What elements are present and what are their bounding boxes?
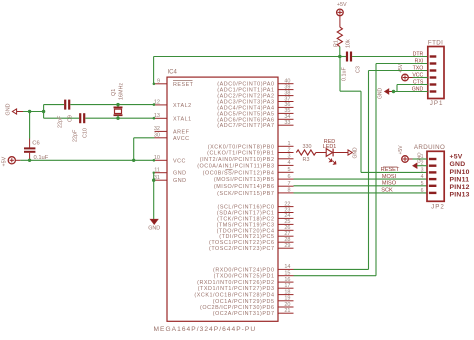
- capacitor C10: [79, 113, 81, 123]
- svg-text:19: 19: [284, 296, 290, 302]
- svg-text:PIN13: PIN13: [450, 192, 470, 199]
- svg-text:2: 2: [287, 147, 290, 153]
- JP2 pin 1: [429, 158, 437, 160]
- pin 38 PA2 stub: [278, 95, 294, 97]
- supply +5V (FTDI VCC): [402, 74, 409, 81]
- wire TXO vertical: [368, 71, 370, 270]
- pin 24 PC2 stub: [278, 217, 294, 219]
- pin 32 AREF stub: [155, 130, 168, 132]
- svg-text:C9: C9: [68, 115, 74, 122]
- node xtal2 pin dot: [153, 103, 156, 106]
- svg-text:VCC: VCC: [173, 158, 186, 164]
- JP1 pin VCC: [430, 76, 437, 78]
- wire +5V to R1: [339, 16, 341, 27]
- pin 35 PA5 stub: [278, 112, 294, 114]
- svg-text:DTR: DTR: [413, 52, 424, 58]
- ground GND (JP2): [413, 163, 417, 168]
- svg-text:(TOSC2/PCINT23)PC7: (TOSC2/PCINT23)PC7: [209, 246, 275, 252]
- svg-text:20: 20: [284, 302, 290, 308]
- svg-text:6: 6: [287, 174, 290, 180]
- svg-text:22pF: 22pF: [58, 115, 64, 128]
- svg-text:JP2: JP2: [431, 204, 445, 211]
- wire MOSI: [294, 178, 428, 180]
- wire R1 bottom: [339, 47, 341, 57]
- wire C3 to DTR: [352, 56, 428, 58]
- svg-text:+5V: +5V: [398, 63, 404, 73]
- pin 15 PD1 stub: [278, 275, 294, 277]
- JP2 pin 6: [429, 192, 437, 194]
- wire gnd pins vertical: [153, 173, 155, 219]
- wire VCC rail: [15, 159, 20, 161]
- pin 23 PC1 stub: [278, 212, 294, 214]
- connector JP2 ARDUINO box: [427, 151, 444, 201]
- svg-text:JP1: JP1: [430, 100, 444, 107]
- pin 5 PB4 stub: [278, 171, 294, 173]
- wire gnd horizontal: [23, 111, 44, 113]
- pin 34 PA6 stub: [278, 118, 294, 120]
- capacitor C6: [24, 147, 35, 149]
- svg-text:IC4: IC4: [168, 70, 178, 76]
- node junction AVCC drop: [132, 159, 135, 162]
- pin 39 PA1 stub: [278, 89, 294, 91]
- wire to C10 left: [44, 117, 79, 119]
- node junction gnd pin 11: [153, 172, 155, 174]
- ground GND (FTDI): [385, 89, 389, 94]
- wire CTS branch horizontal: [397, 84, 428, 86]
- ground GND (top-left): [12, 109, 16, 114]
- wire SCK: [294, 192, 428, 194]
- svg-text:+5V: +5V: [2, 156, 8, 166]
- pin 10 VCC stub: [155, 159, 168, 161]
- pin 9 RESET stub: [155, 83, 168, 85]
- wire RXI horizontal: [376, 63, 428, 65]
- wire C6 vertical from gnd rail: [29, 112, 31, 139]
- wire gnd to JP2 pin2: [417, 165, 427, 167]
- svg-text:15: 15: [284, 271, 290, 277]
- JP2 pin 3: [429, 171, 437, 173]
- JP1 pin CTS: [430, 83, 437, 85]
- pin 3 PB2 stub: [278, 158, 294, 160]
- svg-text:R1: R1: [334, 40, 340, 47]
- svg-text:PIN12: PIN12: [450, 184, 470, 191]
- JP2 pin 4: [429, 178, 437, 180]
- svg-text:RESET: RESET: [173, 82, 194, 88]
- svg-text:GND: GND: [450, 161, 466, 168]
- pin 26 PC4 stub: [278, 229, 294, 231]
- wire AVCC vertical: [133, 138, 135, 161]
- wire TXO to PD0: [294, 268, 369, 270]
- wire reset-JP2 horizontal: [361, 171, 427, 173]
- svg-text:(XCK0/T0/PCINT8)PB0: (XCK0/T0/PCINT8)PB0: [208, 144, 275, 150]
- svg-text:16MHz: 16MHz: [119, 83, 125, 100]
- svg-text:+5V: +5V: [337, 2, 347, 8]
- pin 7 PB6 stub: [278, 185, 294, 187]
- wire reset-JP2 vertical: [360, 91, 362, 172]
- svg-text:RXI: RXI: [415, 59, 424, 65]
- supply +5V (top): [337, 9, 344, 16]
- svg-text:17: 17: [284, 283, 290, 289]
- resistor R3 330: [296, 150, 316, 155]
- ground GND (below IC): [150, 219, 158, 224]
- svg-text:4: 4: [421, 174, 424, 180]
- svg-text:(OC2A/PCINT31)PD7: (OC2A/PCINT31)PD7: [213, 311, 275, 317]
- pin 6 PB5 stub: [278, 178, 294, 180]
- svg-text:4: 4: [287, 160, 290, 166]
- pin 27 PC5 stub: [278, 235, 294, 237]
- wire gnd to JP1: [389, 91, 393, 93]
- svg-text:GND: GND: [353, 147, 359, 159]
- JP1 pin TXO: [430, 69, 437, 71]
- wire RXI to PD1: [294, 275, 377, 277]
- wire R3 to LED: [316, 152, 327, 154]
- pin 20 PD6 stub: [278, 306, 294, 308]
- svg-text:(RXD1/INT0/PCINT26)PD2: (RXD1/INT0/PCINT26)PD2: [197, 280, 274, 286]
- node junction caps branch: [42, 110, 45, 113]
- node junction crystal bottom: [116, 117, 119, 120]
- pin 22 PC0 stub: [278, 206, 294, 208]
- pin 36 PA4 stub: [278, 106, 294, 108]
- wire reset-JP2 jog: [340, 90, 361, 92]
- wire reset-JP2 drop: [339, 57, 341, 92]
- svg-text:GND: GND: [173, 171, 186, 177]
- svg-text:(INT2/AIN0/PCINT10)PB2: (INT2/AIN0/PCINT10)PB2: [200, 157, 275, 163]
- svg-text:C3: C3: [356, 66, 362, 73]
- capacitor C9: [64, 100, 66, 110]
- svg-text:(TXD1/INT1/PCINT27)PD3: (TXD1/INT1/PCINT27)PD3: [198, 286, 275, 292]
- pin 29 PC7 stub: [278, 247, 294, 249]
- pin 25 PC3 stub: [278, 223, 294, 225]
- capacitor C3: [340, 56, 346, 58]
- svg-text:(OC2B/ICP/PCINT30)PD6: (OC2B/ICP/PCINT30)PD6: [200, 305, 274, 311]
- svg-text:33: 33: [284, 120, 290, 126]
- svg-text:(OC1A/PCINT29)PD5: (OC1A/PCINT29)PD5: [213, 299, 275, 305]
- svg-text:GND: GND: [417, 152, 422, 163]
- svg-text:AREF: AREF: [173, 129, 190, 135]
- svg-text:(ADC7/PCINT7)PA7: (ADC7/PCINT7)PA7: [217, 123, 274, 129]
- wire RXI vertical: [375, 64, 377, 276]
- svg-text:22pF: 22pF: [73, 129, 79, 142]
- svg-text:8: 8: [287, 188, 290, 194]
- svg-text:5: 5: [421, 181, 424, 187]
- svg-text:29: 29: [284, 243, 290, 249]
- pin 18 PD4 stub: [278, 294, 294, 296]
- wire reset vertical to pin 9: [153, 57, 155, 84]
- wire CTS branch vertical: [396, 85, 398, 92]
- svg-text:Q1: Q1: [111, 89, 117, 96]
- svg-text:32: 32: [154, 126, 160, 132]
- svg-text:C10: C10: [83, 128, 89, 138]
- svg-text:GND: GND: [173, 178, 186, 184]
- supply +5V (JP2): [402, 156, 409, 163]
- svg-text:XTAL1: XTAL1: [173, 116, 192, 122]
- node junction reset pin: [153, 83, 156, 86]
- pin 30 AVCC stub: [155, 137, 168, 139]
- pin 12 XTAL2 stub: [155, 104, 168, 106]
- wire +5V to JP2 pin1: [408, 158, 412, 160]
- wire reset horizontal: [154, 56, 340, 58]
- svg-text:SCK: SCK: [381, 188, 393, 194]
- node junction reset/R1/C3: [338, 55, 341, 58]
- node vcc pin dot: [153, 159, 156, 162]
- svg-text:GND: GND: [5, 103, 11, 115]
- svg-text:(OC0B/SS/PCINT12)PB4: (OC0B/SS/PCINT12)PB4: [203, 170, 275, 176]
- ground GND (LED): [348, 150, 352, 155]
- wire gnd stub: [17, 111, 23, 113]
- svg-text:TXO: TXO: [413, 66, 424, 72]
- pin 2 PB1 stub: [278, 152, 294, 154]
- LED LED1: [326, 149, 332, 157]
- svg-text:RESET: RESET: [381, 167, 400, 173]
- svg-text:+5V: +5V: [450, 153, 463, 160]
- node junction C6-top branch: [28, 110, 31, 113]
- svg-text:10k: 10k: [346, 39, 352, 48]
- wire C10 right to XTAL1: [85, 117, 154, 119]
- IC IC4 MEGA164P/324P/644P-PU outline: [167, 77, 278, 321]
- svg-text:14: 14: [284, 264, 290, 270]
- pin 4 PB3 stub: [278, 164, 294, 166]
- svg-text:FTDI: FTDI: [428, 39, 443, 46]
- connector JP1 FTDI box: [428, 47, 444, 99]
- svg-text:R3: R3: [303, 157, 310, 163]
- pin 14 PD0 stub: [278, 268, 294, 270]
- JP1 pin RXI: [430, 62, 437, 64]
- svg-text:7: 7: [287, 181, 290, 187]
- svg-text:30: 30: [154, 133, 160, 139]
- svg-text:11: 11: [154, 168, 160, 174]
- wire TXO horizontal: [369, 70, 428, 72]
- svg-text:MISO: MISO: [382, 181, 397, 187]
- svg-text:GND: GND: [378, 88, 384, 100]
- svg-text:(MOSI/PCINT13)PB5: (MOSI/PCINT13)PB5: [214, 177, 275, 183]
- wire C9 right to XTAL2: [70, 104, 154, 106]
- JP1 pin GND: [430, 90, 437, 92]
- pin 16 PD2 stub: [278, 281, 294, 283]
- svg-text:AVCC: AVCC: [173, 136, 190, 142]
- supply +5V (left): [8, 157, 15, 164]
- resistor R1 10k: [337, 27, 342, 47]
- svg-text:3: 3: [287, 154, 290, 160]
- svg-text:MOSI: MOSI: [382, 174, 397, 180]
- svg-text:(RXD0/PCINT24)PD0: (RXD0/PCINT24)PD0: [213, 267, 274, 273]
- svg-text:(MISO/PCINT14)PB6: (MISO/PCINT14)PB6: [214, 184, 275, 190]
- wire caps branch vertical: [43, 105, 45, 119]
- JP2 pin 5: [429, 185, 437, 187]
- svg-text:(XCK1/OC1B/PCINT28)PD4: (XCK1/OC1B/PCINT28)PD4: [194, 293, 274, 299]
- node junction CTS/GND: [392, 90, 395, 93]
- svg-text:6: 6: [421, 188, 424, 194]
- svg-text:PIN11: PIN11: [450, 177, 470, 184]
- pin 33 PA7 stub: [278, 124, 294, 126]
- svg-text:5: 5: [287, 167, 290, 173]
- node junction C6 bottom: [28, 159, 31, 162]
- pin 19 PD5 stub: [278, 300, 294, 302]
- svg-text:XTAL2: XTAL2: [173, 103, 192, 109]
- svg-text:LED1: LED1: [323, 144, 337, 150]
- node junction crystal top: [116, 103, 119, 106]
- svg-text:(SCK/PCINT15)PB7: (SCK/PCINT15)PB7: [217, 191, 274, 197]
- JP2 pin 2: [429, 164, 437, 166]
- node junction gnd pin 31: [152, 179, 155, 182]
- JP1 pin DTR: [430, 55, 437, 57]
- svg-text:(TXD0/PCINT25)PD1: (TXD0/PCINT25)PD1: [214, 274, 275, 280]
- svg-text:MEGA164P/324P/644P-PU: MEGA164P/324P/644P-PU: [154, 326, 257, 333]
- svg-text:GND: GND: [148, 226, 160, 232]
- svg-text:1: 1: [287, 141, 290, 147]
- pin 8 PB7 stub: [278, 192, 294, 194]
- pin 40 PA0 stub: [278, 83, 294, 85]
- svg-text:16: 16: [284, 277, 290, 283]
- pin 28 PC6 stub: [278, 241, 294, 243]
- svg-text:(CLKO/T1/PCINT9)PB1: (CLKO/T1/PCINT9)PB1: [207, 151, 274, 157]
- wire AVCC horizontal: [134, 137, 155, 139]
- svg-text:C6: C6: [32, 140, 39, 146]
- pin 17 PD3 stub: [278, 287, 294, 289]
- crystal Q1: [117, 105, 119, 108]
- svg-text:330: 330: [303, 144, 312, 150]
- svg-text:+5V: +5V: [398, 145, 404, 155]
- svg-text:0.1uF: 0.1uF: [341, 67, 347, 81]
- svg-text:PIN10: PIN10: [450, 169, 470, 176]
- svg-text:3: 3: [421, 167, 424, 173]
- wire MISO: [294, 185, 428, 187]
- svg-text:9: 9: [157, 79, 160, 85]
- pin 21 PD7 stub: [278, 312, 294, 314]
- wire LED to gnd: [333, 152, 348, 154]
- node xtal1 pin dot: [153, 117, 156, 120]
- pin 13 XTAL1 stub: [155, 117, 168, 119]
- svg-text:21: 21: [284, 308, 290, 314]
- svg-text:18: 18: [284, 289, 290, 295]
- pin 11 GND stub: [155, 172, 168, 174]
- wire C6 bottom: [29, 153, 31, 161]
- wire VCC to JP1: [408, 77, 412, 79]
- svg-text:ARDUINO: ARDUINO: [414, 144, 445, 151]
- svg-text:(OC0A/AIN1/PCINT11)PB3: (OC0A/AIN1/PCINT11)PB3: [197, 163, 274, 169]
- pin 31 GND stub: [155, 179, 168, 181]
- pin 1 PB0 stub: [278, 145, 294, 147]
- wire to C9 left: [44, 104, 64, 106]
- pin 37 PA3 stub: [278, 101, 294, 103]
